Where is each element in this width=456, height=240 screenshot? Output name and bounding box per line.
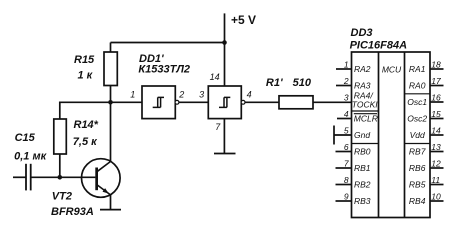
- port RB0: [354, 147, 371, 157]
- wire: +5V horizontal bus to R15: [111, 42, 225, 44]
- svg-text:RB3: RB3: [354, 196, 371, 206]
- svg-text:VT2: VT2: [52, 190, 72, 202]
- port Vdd: [410, 130, 425, 140]
- svg-text:RB5: RB5: [409, 180, 426, 190]
- DD3 pin 18 stub: [430, 60, 444, 70]
- port RA0: [409, 81, 426, 91]
- label R15: [74, 54, 95, 66]
- svg-text:R15: R15: [74, 54, 95, 66]
- svg-text:RA3: RA3: [354, 81, 371, 91]
- capacitor C15: [26, 164, 31, 191]
- svg-text:0,1 мк: 0,1 мк: [14, 151, 47, 163]
- port RB3: [354, 196, 371, 206]
- svg-text:Osc1: Osc1: [407, 97, 427, 107]
- svg-text:14: 14: [431, 126, 441, 136]
- svg-text:3: 3: [199, 89, 204, 99]
- DD3 pin 3 number: [344, 93, 349, 103]
- label R1': [266, 77, 283, 89]
- pin 3 label (DD1.2 input): [199, 89, 204, 99]
- svg-text:MCLR: MCLR: [354, 114, 378, 124]
- svg-text:RA0: RA0: [409, 81, 426, 91]
- pin 2 label (DD1.1 output): [178, 89, 184, 99]
- transistor VT2: [82, 159, 121, 198]
- svg-text:10: 10: [431, 192, 441, 202]
- svg-text:5: 5: [344, 126, 349, 136]
- label R15 value 1 k: [78, 70, 94, 82]
- svg-text:1: 1: [344, 60, 349, 70]
- wire: R14 bottom lead to base node: [59, 154, 61, 177]
- pin 1 label (DD1.1 input): [130, 90, 135, 100]
- DD3 pin 14 stub: [430, 126, 444, 136]
- wire: R15 bottom lead to node A: [110, 86, 112, 103]
- svg-text:1: 1: [130, 90, 135, 100]
- label VT2: [52, 190, 72, 202]
- port RA4/TOCKI: [352, 90, 378, 109]
- svg-text:2: 2: [178, 89, 184, 99]
- label MCU: [382, 64, 402, 74]
- label R1' value 510: [293, 77, 312, 89]
- svg-text:9: 9: [344, 192, 349, 202]
- svg-text:Gnd: Gnd: [354, 130, 370, 140]
- svg-text:C15: C15: [15, 132, 36, 144]
- svg-text:7,5 к: 7,5 к: [73, 136, 98, 148]
- svg-text:RB2: RB2: [354, 180, 371, 190]
- svg-text:R14*: R14*: [74, 119, 99, 131]
- label R14*: [74, 119, 99, 131]
- IC DD3 PIC16F84A body: [352, 52, 431, 218]
- port Gnd: [354, 130, 370, 140]
- DD3 right column separators: [405, 94, 431, 144]
- label R14 value 7,5 k: [73, 136, 98, 148]
- svg-text:2: 2: [343, 76, 349, 86]
- svg-text:18: 18: [431, 60, 441, 70]
- port RB4: [409, 196, 426, 206]
- wire: C15 left terminal: [13, 176, 26, 178]
- svg-text:TOCKI: TOCKI: [352, 99, 378, 109]
- label DD3 type PIC16F84A: [350, 40, 408, 52]
- port RB2: [354, 180, 371, 190]
- wire: +5V vertical drop to DD1.2 pin 14: [224, 13, 226, 86]
- svg-text:PIC16F84A: PIC16F84A: [350, 40, 408, 52]
- label VT2 type BFR93A: [51, 206, 94, 218]
- DD3 pin 4 stub: [337, 109, 352, 119]
- wire: DD1.1 output to DD1.2 input: [179, 101, 208, 103]
- label DD1': [139, 53, 164, 65]
- svg-text:RB4: RB4: [409, 196, 426, 206]
- svg-text:1 к: 1 к: [78, 70, 94, 82]
- wire: DD1.2 pin 7 down: [223, 119, 225, 154]
- op element DD1.1 Schmitt trigger: [142, 86, 179, 119]
- op element DD1.2 Schmitt trigger: [208, 86, 245, 119]
- svg-text:RB6: RB6: [409, 163, 426, 173]
- DD3 pin 1 stub: [336, 60, 352, 70]
- svg-text:R1': R1': [266, 77, 283, 89]
- wire: C15 to base node to transistor base: [31, 176, 96, 178]
- port RB6: [409, 163, 426, 173]
- svg-text:14: 14: [210, 72, 220, 82]
- pin 14 label (DD1 Vcc): [210, 72, 220, 82]
- wire: R15 top lead: [110, 43, 112, 54]
- label C15 value 0,1 mk: [14, 151, 47, 163]
- svg-text:4: 4: [344, 109, 349, 119]
- svg-text:Osc2: Osc2: [407, 114, 427, 124]
- pin 4 label (DD1.2 output): [247, 89, 252, 99]
- svg-text:13: 13: [431, 142, 441, 152]
- DD3 pin 9 stub: [336, 192, 352, 202]
- svg-text:RA2: RA2: [354, 64, 371, 74]
- DD3 pin 11 stub: [430, 175, 444, 185]
- port RA1: [409, 64, 426, 74]
- DD3 pin 17 stub: [430, 76, 444, 86]
- port Osc2: [407, 114, 427, 124]
- svg-text:RB1: RB1: [354, 163, 371, 173]
- DD3 pin 13 stub: [430, 142, 444, 152]
- svg-text:MCU: MCU: [382, 64, 402, 74]
- svg-text:BFR93A: BFR93A: [51, 206, 94, 218]
- wire: emitter down to ground: [110, 195, 112, 210]
- svg-text:8: 8: [344, 175, 349, 185]
- DD3 pin 2 stub: [336, 76, 352, 86]
- label C15: [15, 132, 36, 144]
- wire: node A to DD1.1 input: [111, 101, 143, 103]
- svg-text:6: 6: [344, 142, 349, 152]
- DD3 pin 7 stub: [336, 159, 352, 169]
- resistor R1': [279, 96, 313, 109]
- DD3 pin 6 stub: [336, 142, 352, 152]
- svg-text:3: 3: [344, 93, 349, 103]
- svg-text:16: 16: [431, 93, 441, 103]
- DD3 pin 15 stub: [430, 109, 444, 119]
- svg-text:Vdd: Vdd: [410, 130, 425, 140]
- svg-text:15: 15: [431, 109, 441, 119]
- svg-text:RB7: RB7: [409, 147, 426, 157]
- ground (DD1 pin 7): [214, 153, 236, 155]
- pin 7 label (DD1 GND): [215, 122, 221, 132]
- port RB7: [409, 147, 426, 157]
- svg-text:RB0: RB0: [354, 147, 371, 157]
- wire: DD1.2 output to R1': [245, 101, 279, 103]
- svg-text:+5 V: +5 V: [231, 13, 256, 27]
- svg-text:4: 4: [247, 89, 252, 99]
- wire: R1' to DD3 pin 3: [313, 101, 352, 103]
- ground (emitter): [100, 209, 121, 211]
- port Osc1: [407, 97, 427, 107]
- DD3 pin 5 stub with end bar: [334, 126, 352, 145]
- DD3 pin 16 stub: [430, 93, 444, 103]
- DD3 left column separators: [352, 111, 379, 144]
- svg-text:7: 7: [344, 159, 349, 169]
- label DD3: [351, 27, 373, 39]
- port RA2: [354, 64, 371, 74]
- DD3 pin 10 stub: [430, 192, 444, 202]
- svg-text:510: 510: [293, 77, 312, 89]
- power +5V label: [231, 13, 256, 27]
- node: bus junction at +5V drop: [222, 40, 227, 45]
- label DD1 type K1533TL2: [138, 64, 190, 76]
- wire: node A left to R14 top corner: [60, 102, 111, 119]
- svg-text:К1533ТЛ2: К1533ТЛ2: [138, 64, 190, 76]
- svg-text:11: 11: [431, 175, 440, 185]
- port RA3: [354, 81, 371, 91]
- wire: collector up to node A: [110, 102, 112, 161]
- svg-text:DD3: DD3: [351, 27, 373, 39]
- svg-text:17: 17: [431, 76, 441, 86]
- svg-text:RA1: RA1: [409, 64, 426, 74]
- resistor R15: [104, 52, 117, 86]
- node A: R15 / collector / signal junction: [108, 100, 113, 105]
- DD3 pin 8 stub: [336, 175, 352, 185]
- resistor R14: [54, 119, 67, 154]
- svg-text:12: 12: [431, 159, 441, 169]
- port MCLR with overline: [354, 114, 378, 124]
- port RB1: [354, 163, 371, 173]
- node B: R14 / C15 / base junction: [58, 175, 63, 180]
- DD3 pin 12 stub: [430, 159, 444, 169]
- port RB5: [409, 180, 426, 190]
